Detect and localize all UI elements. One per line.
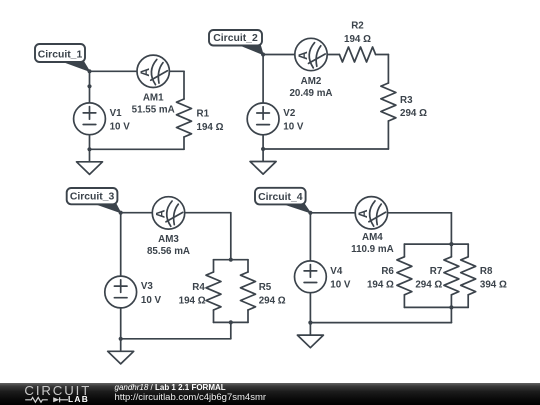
- svg-text:R7: R7: [430, 266, 443, 277]
- svg-text:R6: R6: [381, 266, 394, 277]
- svg-text:194 Ω: 194 Ω: [179, 296, 206, 307]
- svg-text:V3: V3: [141, 281, 154, 292]
- svg-text:Circuit_4: Circuit_4: [258, 192, 303, 203]
- svg-text:R3: R3: [400, 95, 413, 106]
- svg-text:AM1: AM1: [143, 93, 164, 104]
- svg-text:194 Ω: 194 Ω: [367, 280, 394, 291]
- svg-text:394 Ω: 394 Ω: [480, 280, 507, 291]
- svg-text:10 V: 10 V: [283, 122, 304, 133]
- svg-text:A: A: [153, 209, 167, 218]
- svg-text:V4: V4: [330, 266, 343, 277]
- svg-text:10 V: 10 V: [330, 280, 351, 291]
- svg-text:Circuit_2: Circuit_2: [213, 33, 258, 44]
- svg-text:LAB: LAB: [68, 394, 89, 404]
- svg-text:194 Ω: 194 Ω: [344, 34, 371, 45]
- svg-text:A: A: [356, 209, 370, 218]
- svg-text:AM3: AM3: [158, 234, 179, 245]
- svg-text:294 Ω: 294 Ω: [400, 108, 427, 119]
- svg-text:20.49 mA: 20.49 mA: [289, 88, 332, 99]
- svg-text:Circuit_3: Circuit_3: [70, 192, 115, 203]
- svg-text:51.55 mA: 51.55 mA: [132, 105, 175, 116]
- svg-text:294 Ω: 294 Ω: [415, 280, 442, 291]
- svg-text:Circuit_1: Circuit_1: [38, 49, 83, 60]
- svg-text:294 Ω: 294 Ω: [259, 296, 286, 307]
- svg-text:R4: R4: [192, 282, 205, 293]
- svg-text:V2: V2: [283, 108, 296, 119]
- svg-text:A: A: [138, 68, 152, 77]
- svg-text:R5: R5: [259, 282, 272, 293]
- svg-text:R1: R1: [197, 109, 210, 120]
- svg-text:10 V: 10 V: [110, 122, 131, 133]
- svg-text:110.9 mA: 110.9 mA: [351, 244, 393, 255]
- svg-text:V1: V1: [110, 108, 123, 119]
- svg-text:10 V: 10 V: [141, 295, 162, 306]
- svg-text:AM4: AM4: [362, 232, 383, 243]
- svg-text:85.56 mA: 85.56 mA: [147, 246, 190, 257]
- svg-text:AM2: AM2: [301, 76, 322, 87]
- svg-text:R2: R2: [351, 20, 364, 31]
- svg-text:194 Ω: 194 Ω: [197, 122, 224, 133]
- svg-text:R8: R8: [480, 266, 493, 277]
- svg-text:A: A: [296, 51, 310, 60]
